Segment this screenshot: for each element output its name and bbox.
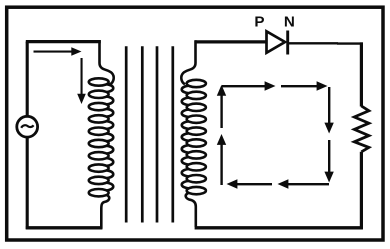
arrow loop bottom side (current left, left segment) bbox=[227, 179, 273, 188]
arrow loop top side (current right, left segment) bbox=[222, 81, 276, 90]
svg-text:P: P bbox=[254, 14, 264, 31]
wire right vertical lower bbox=[360, 152, 363, 229]
transformer core bbox=[126, 46, 173, 222]
arrow loop left side (current up, lower segment) bbox=[217, 134, 226, 185]
inductor primary winding bbox=[89, 78, 113, 196]
arrow loop right side (current down, upper segment) bbox=[324, 87, 333, 134]
wire primary left vertical bbox=[26, 42, 29, 117]
wire secondary top horizontal (anode side) bbox=[195, 40, 266, 43]
wire secondary bottom horizontal bbox=[195, 226, 363, 229]
arrow loop bottom side (current left, right segment) bbox=[278, 179, 330, 188]
wire secondary coil bottom lead bbox=[186, 193, 196, 227]
wire secondary top horizontal (cathode side) bbox=[289, 42, 363, 45]
diode bbox=[267, 31, 288, 55]
wire primary left lower vertical bbox=[26, 137, 29, 229]
arrow current primary vertical bbox=[77, 58, 86, 104]
wire primary bottom horizontal bbox=[26, 226, 103, 229]
wire primary coil bottom lead bbox=[101, 195, 109, 229]
ac source bbox=[17, 116, 38, 137]
wire right vertical upper (to resistor) bbox=[360, 42, 363, 106]
arrow loop left side (current up, upper segment) bbox=[217, 85, 226, 128]
arrow loop right side (current down, lower segment) bbox=[324, 140, 333, 183]
inductor secondary winding bbox=[182, 80, 206, 195]
arrow current primary horizontal bbox=[34, 47, 82, 56]
wire primary coil top lead bbox=[100, 40, 114, 84]
wire primary top horizontal bbox=[26, 40, 101, 43]
svg-text:N: N bbox=[284, 14, 295, 31]
resistor (load) bbox=[354, 106, 369, 152]
wire secondary coil top lead bbox=[181, 40, 195, 84]
arrow loop top side (current right, right segment) bbox=[281, 81, 328, 90]
